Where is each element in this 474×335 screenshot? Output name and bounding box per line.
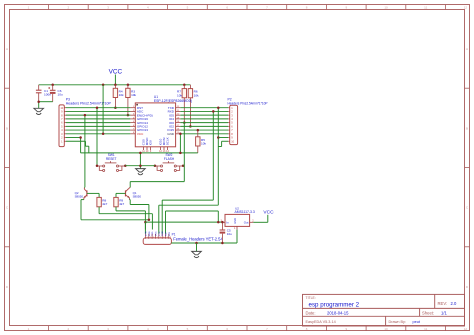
junction ground rail: [195, 242, 198, 245]
connector P1 body: [143, 231, 171, 245]
svg-text:Headers Pins2.54mm*1*10P: Headers Pins2.54mm*1*10P: [66, 102, 112, 106]
ground flag below C1: [34, 108, 44, 114]
connector P3 label: [66, 98, 112, 106]
wire RXD net to P1 pin6: [162, 200, 213, 234]
switch SW2 FLASH body: [155, 161, 183, 171]
wire P3 pin9 to ESP: [66, 110, 130, 112]
svg-text:Headers Pins2.54mm*1*10P: Headers Pins2.54mm*1*10P: [228, 101, 268, 105]
wire Q2 emitter down to RTS row: [81, 200, 149, 220]
svg-text:Out: Out: [244, 220, 249, 224]
resistor R5 pulldown: [197, 130, 199, 153]
svg-text:A: A: [466, 47, 468, 51]
wire ESP IO5 to P2 pin3: [180, 114, 228, 116]
wire P3 pin2 down to ground rail: [66, 138, 81, 153]
junction EN line: [84, 114, 87, 117]
IC U1 label: [154, 95, 192, 103]
svg-text:FLASH: FLASH: [164, 157, 175, 161]
wire P1 to ground rail: [171, 242, 237, 244]
junction In line at P1 pin1: [144, 221, 147, 224]
wire P3 pin5 to ESP: [66, 125, 130, 127]
wire P3 pin3 to ESP: [66, 133, 130, 135]
wire C1 C6 ground link: [39, 102, 53, 109]
junction SW2 right: [182, 164, 185, 167]
svg-text:DTR: DTR: [146, 231, 148, 236]
regulator U2 label: [235, 206, 255, 214]
junction ground stem at switch row: [139, 164, 142, 167]
wire In line to P1 pin1 drop: [144, 222, 146, 234]
svg-text:10k: 10k: [177, 93, 182, 97]
wire VCC rail: [39, 84, 191, 86]
svg-text:VCC: VCC: [137, 132, 144, 136]
svg-text:VCC: VCC: [156, 231, 158, 236]
svg-text:2.0: 2.0: [451, 301, 457, 306]
transistor Q2 S8050: [75, 188, 87, 200]
svg-text:GND: GND: [167, 132, 175, 136]
wire GND pin down: [179, 134, 181, 153]
resistor R3: [127, 85, 129, 115]
resistor R6: [188, 89, 199, 98]
junction TXD vertical at P2 pin9 line: [217, 136, 220, 139]
wire SW2 right to IO0 vertical: [183, 165, 184, 167]
junction In line pin7 drop: [217, 221, 220, 224]
svg-text:RESET: RESET: [106, 157, 117, 161]
junction R5 to IO15 line: [197, 129, 200, 132]
wire U2 In line: [145, 221, 221, 223]
junction VCC feed: [102, 133, 105, 136]
svg-text:TXD: TXD: [152, 231, 154, 236]
svg-text:2018-04-15: 2018-04-15: [327, 311, 349, 316]
wire P3 pin6 to ESP: [66, 122, 130, 124]
svg-text:10k: 10k: [119, 93, 124, 97]
junction C5 bottom: [221, 242, 224, 245]
junction GND pin: [179, 133, 182, 136]
ground flag between switches: [139, 153, 141, 169]
svg-text:VCC: VCC: [109, 69, 123, 76]
wire P3 pin8 to ESP: [66, 114, 130, 116]
resistor R4: [114, 85, 116, 108]
wire EN line down to Q2 collector: [84, 115, 86, 187]
wire P3 pin7 to ESP: [66, 118, 130, 120]
resistor R3: [126, 88, 137, 97]
svg-text:11: 11: [424, 327, 427, 331]
svg-text:CTS: CTS: [159, 231, 161, 236]
wire RXD down to DTR-RTS network: [212, 111, 214, 200]
resistor R8: [97, 197, 108, 206]
wire ESP IO15 to P2 pin7: [180, 129, 228, 131]
junction VCC feed on rail: [102, 84, 105, 87]
svg-text:10k: 10k: [131, 93, 136, 97]
junction R7 on rail: [183, 84, 186, 87]
wire P3 pin1 step: [66, 141, 89, 153]
capacitor C5 electrolytic: [220, 222, 233, 243]
svg-text:4k7: 4k7: [119, 202, 124, 206]
svg-text:10: 10: [384, 327, 388, 331]
svg-text:S8050: S8050: [133, 194, 142, 198]
connector P2 label: [228, 97, 268, 105]
svg-text:GND: GND: [233, 218, 237, 224]
wire ground net horizontal: [81, 152, 198, 154]
svg-text:VCC: VCC: [263, 210, 274, 216]
switch SW2 FLASH label: [164, 153, 175, 161]
junction C6 on rail: [51, 84, 54, 87]
wire Q1 emitter to P1 pin2: [129, 200, 149, 221]
svg-text:12: 12: [464, 327, 468, 331]
svg-text:10: 10: [384, 6, 388, 10]
ground flag bottom: [196, 243, 198, 251]
wire P3 pin10 to ESP: [66, 107, 130, 109]
resistor R4: [113, 88, 124, 97]
svg-text:Female_Headers YET-2.54: Female_Headers YET-2.54: [173, 237, 223, 242]
junction ground stem at rail: [139, 152, 142, 155]
junction R3 to EN line: [127, 114, 129, 117]
svg-text:AMS1117-3.3: AMS1117-3.3: [235, 210, 255, 214]
svg-text:1: 1: [146, 237, 147, 239]
regulator U2 AMS1117 body: [220, 214, 254, 230]
border row ticks and letters: [5, 47, 470, 289]
wire Q1 base to R9: [116, 193, 126, 197]
wire switch ground row: [125, 165, 155, 167]
title block: [303, 294, 465, 326]
wire P2 pin10 hook: [218, 141, 228, 146]
junction R6 to IO2 line: [189, 125, 192, 128]
svg-text:GND: GND: [162, 231, 164, 236]
wire RST line down to reset switch: [96, 108, 98, 166]
svg-text:IO9: IO9: [149, 140, 153, 145]
junction SW1 left: [96, 164, 99, 167]
junction TXD vertical: [217, 106, 220, 109]
svg-text:esp programmer 2: esp programmer 2: [309, 302, 360, 309]
svg-text:10k: 10k: [194, 93, 199, 97]
svg-text:B: B: [466, 126, 468, 130]
IC U1 ESP-12F body: [130, 103, 180, 153]
svg-text:peut: peut: [413, 320, 421, 324]
svg-text:A: A: [6, 47, 8, 51]
svg-text:12: 12: [464, 6, 468, 10]
wire TXD net to P1 pin5: [159, 205, 219, 234]
wire Q1 collector up to flash net: [129, 182, 184, 189]
title block Sheet: [422, 311, 447, 316]
junction R3 on rail: [127, 84, 129, 87]
transistor Q1 S8050: [126, 188, 142, 199]
VCC power flag top: [109, 69, 123, 85]
svg-text:B: B: [6, 126, 8, 130]
junction R7 to IO0 line: [183, 121, 186, 124]
wire VCC rail feed down to VCC line: [102, 85, 104, 134]
junction ground net at GND descent: [179, 152, 182, 155]
junction C5 top: [221, 221, 224, 224]
junction SW1 right: [124, 164, 127, 167]
svg-text:10k: 10k: [201, 142, 206, 146]
svg-text:RXD: RXD: [149, 231, 151, 236]
wire P2 pin9 to TXD vertical: [218, 137, 228, 139]
wire TXD down to DTR-RTS network: [217, 108, 219, 206]
resistor R7: [177, 89, 187, 98]
capacitor C6 electrolytic: [48, 85, 63, 102]
svg-text:ESP-12F(ESP8266MOD): ESP-12F(ESP8266MOD): [154, 99, 192, 103]
svg-text:4: 4: [157, 237, 158, 239]
resistor R7: [183, 85, 185, 123]
junction SW2 left: [154, 164, 157, 167]
wire IO0 down to flash switch and Q1 collector: [183, 123, 185, 182]
svg-text:Date:: Date:: [306, 311, 316, 316]
wire Q2 base to R8: [87, 193, 99, 197]
wire R9 bottom to P1 pin1: [116, 207, 145, 230]
svg-text:2: 2: [150, 237, 151, 239]
wire ESP IO4 to P2 pin4: [180, 118, 228, 120]
junction C1 C6: [37, 100, 40, 103]
svg-text:1/1: 1/1: [441, 311, 447, 316]
svg-text:Sheet:: Sheet:: [422, 311, 434, 316]
junction R4 to RST line: [114, 106, 117, 109]
resistor R6: [189, 85, 191, 127]
svg-text:REV:: REV:: [438, 301, 448, 306]
junction RST line: [96, 106, 99, 109]
capacitor C1: [36, 85, 51, 102]
svg-text:10u: 10u: [58, 92, 63, 96]
junction R4 on rail: [114, 84, 117, 87]
junction Q2 emitter wire at P1 pin2: [148, 219, 151, 222]
svg-text:S8050: S8050: [75, 194, 84, 198]
switch SW1 RESET label: [106, 153, 117, 161]
wire EN vertical to Q2 collector join: [83, 186, 86, 188]
svg-text:8: 8: [170, 237, 171, 239]
wire P3 pin4 to ESP: [66, 129, 130, 131]
svg-text:EasyEDA V5.3.14: EasyEDA V5.3.14: [306, 320, 336, 324]
title block Date: [306, 311, 350, 316]
svg-text:6: 6: [163, 237, 164, 239]
resistor R5: [196, 137, 207, 146]
title block REV: [438, 301, 457, 306]
connector P2 body: [228, 105, 237, 144]
svg-text:3: 3: [153, 237, 154, 239]
svg-text:Drawn By:: Drawn By:: [389, 320, 407, 324]
wire U2 GND to ground rail: [236, 230, 238, 243]
junction RXD vertical: [212, 110, 215, 113]
svg-text:RST: RST: [166, 231, 168, 236]
connector P3 body: [59, 105, 66, 147]
svg-text:TITLE:: TITLE:: [306, 296, 316, 300]
svg-text:11: 11: [424, 6, 427, 10]
wire R8 bottom to P1 pin3: [99, 207, 152, 230]
wire ESP IO2 to P2 pin6: [180, 125, 228, 127]
wire ESP IO0 to P2 pin5: [180, 122, 228, 124]
resistor R9: [114, 197, 125, 206]
wire U2 Out to VCC: [253, 215, 267, 223]
wire P1 pin7 to U2 In: [166, 211, 219, 234]
svg-text:7: 7: [167, 237, 168, 239]
switch SW1 RESET body: [97, 161, 125, 171]
wire ESP GND to P2 pin8: [180, 133, 228, 135]
connector P1 label: [172, 233, 224, 242]
junction P3 pin2: [79, 136, 82, 139]
svg-text:In: In: [226, 220, 229, 224]
svg-text:10u: 10u: [227, 232, 232, 236]
wire ESP RXD to P2 pin2: [180, 110, 228, 112]
svg-text:SCLK: SCLK: [166, 137, 170, 145]
VCC power flag at regulator: [263, 210, 274, 216]
svg-text:4k7: 4k7: [102, 202, 107, 206]
title block Drawn By: [389, 320, 421, 324]
svg-text:5: 5: [160, 237, 161, 239]
wire ESP TXD to P2 pin1: [180, 107, 228, 109]
